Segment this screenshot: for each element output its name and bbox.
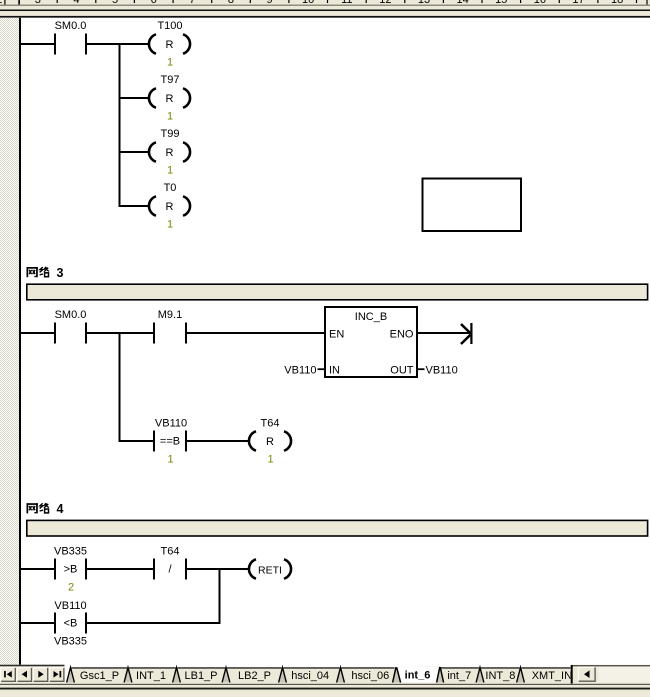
coil RETI [249,559,291,578]
svg-text:T0: T0 [164,182,177,194]
tab hsci_06 [341,667,397,682]
wire: rail to contact SM0.0 [21,43,54,45]
svg-text:INC_B: INC_B [355,311,387,323]
svg-text:M9.1: M9.1 [158,309,182,321]
svg-text:LB2_P: LB2_P [238,670,271,682]
nav button prev [17,667,32,682]
coil T64 (R) [249,418,291,466]
tab XMT_IN (clipped) [521,667,579,682]
wire: <B to junction [87,622,221,624]
svg-text:INT_1: INT_1 [136,670,166,682]
tab area right border [571,665,573,684]
operand VB110 into IN pin [284,365,325,377]
left power rail [19,18,21,665]
compare contact <B VB110,VB335 [54,600,87,648]
svg-text:hsci_06: hsci_06 [351,670,389,682]
network 3 title 网络 3 [27,267,49,277]
tab int_7 [440,667,480,682]
branch vertical wire (net3) [119,332,121,442]
svg-text:R: R [166,39,174,51]
svg-text:VB335: VB335 [54,636,87,648]
svg-text:OUT: OUT [390,364,414,376]
svg-text:INT_8: INT_8 [485,670,515,682]
svg-text:hsci_04: hsci_04 [291,670,329,682]
splitter beige band 1 [0,6,650,10]
tab LB1_P [177,667,227,682]
svg-text:1: 1 [167,57,173,69]
junction vertical wire (net4) [219,568,221,624]
svg-text:1: 1 [167,165,173,177]
svg-text:T99: T99 [161,128,180,140]
wire: contact SM0.0 to coil T100 [87,43,148,45]
ruler bottom gray edge [0,5,650,7]
wire: rail to compare contact >B (net4) [21,568,54,570]
svg-text:1: 1 [167,111,173,123]
network 4 title 网络 4 [27,503,49,513]
svg-text:int_7: int_7 [447,670,471,682]
svg-text:1: 1 [167,454,173,466]
operand VB110 from OUT pin [417,365,458,377]
svg-text:SM0.0: SM0.0 [55,20,87,32]
splitter black line 1 [0,10,650,12]
svg-text:3: 3 [57,266,64,280]
ruler numbers [0,0,623,6]
svg-text:==B: ==B [160,436,180,448]
wire: M9.1 to box INC_B [187,332,325,334]
selected tab int_6 [393,667,444,683]
network 4 comment bar [27,520,648,536]
wire: >B to contact T64 [87,568,153,570]
svg-text:Gsc1_P: Gsc1_P [80,670,119,682]
svg-text:R: R [266,436,274,448]
contact T64 (NC /) [153,546,187,580]
box INC_B U1 [325,307,417,377]
tab scroll left button [578,667,596,682]
coil T99 (R) [149,128,190,177]
scrollbar track [599,667,650,682]
wire: SM0.0 to contact M9.1 [87,332,153,334]
svg-text:T100: T100 [157,20,182,32]
coil T0 (R) [149,182,190,231]
coil T100 (R) [149,20,190,69]
svg-text:1: 1 [167,219,173,231]
tab strip white backdrop [65,667,571,682]
coil T97 (R) [149,74,190,123]
branch vertical wire [119,43,121,207]
tab Gsc1_P [71,667,129,682]
empty selection cell box [423,179,522,232]
tab separators [67,667,525,682]
open arrow (rung continuation) [461,323,473,344]
svg-text:RETI: RETI [258,564,282,576]
svg-text:<B: <B [64,618,78,630]
ruler strip background [0,0,650,5]
nav button next [33,667,48,682]
tab LB2_P [226,667,283,682]
contact M9.1 [153,309,187,344]
svg-text:4: 4 [57,502,64,516]
compare contact ==B VB110,1 [153,418,187,466]
svg-text:EN: EN [329,329,344,341]
splitter black line 2 [0,16,650,18]
svg-text:T64: T64 [161,546,180,558]
nav button first [1,667,16,682]
svg-text:T97: T97 [161,74,180,86]
svg-text:VB110: VB110 [155,418,187,430]
wire: rail to contact SM0.0 (net3) [21,332,54,334]
svg-text:VB110: VB110 [426,365,458,377]
bottom band base [0,665,650,684]
svg-text:R: R [166,201,174,213]
tab INT_1 [128,667,177,682]
svg-text:IN: IN [329,364,340,376]
svg-text:1: 1 [267,454,273,466]
svg-text:>B: >B [64,564,78,576]
wire stub to coil T97 [121,97,149,99]
ruler right edge line [646,0,647,5]
svg-text:VB335: VB335 [54,546,87,558]
svg-text:ENO: ENO [390,329,414,341]
wire stub to coil T0 [121,205,149,207]
wire: rail to compare contact <B (net4 row2) [21,622,54,624]
contact SM0.0 [54,20,87,55]
wire: T64 to coil RETI [187,568,249,570]
network 3 comment bar [27,284,648,300]
wire: ==B to coil T64 [187,440,249,442]
tab INT_8 [480,667,521,682]
svg-text:VB110: VB110 [284,365,316,377]
svg-text:VB110: VB110 [54,600,86,612]
splitter beige band 2 [0,11,650,16]
svg-text:SM0.0: SM0.0 [55,309,87,321]
svg-text:LB1_P: LB1_P [184,670,217,682]
compare contact >B VB335,2 [54,546,87,594]
ruler left corner box [4,0,5,5]
svg-text:R: R [166,93,174,105]
wire stub to compare contact [121,440,154,442]
wire: ENO output [417,332,471,334]
svg-text:R: R [166,147,174,159]
svg-text:XMT_IN: XMT_IN [532,670,572,682]
left gutter margin (dithered) [0,18,19,665]
wire stub to coil T99 [121,151,149,153]
nav button last [49,667,64,682]
svg-text:2: 2 [68,582,74,594]
svg-text:T64: T64 [261,418,280,430]
tab hsci_04 [283,667,341,682]
contact SM0.0 (net3) [54,309,87,344]
status edge lines [0,684,650,697]
svg-text:int_6: int_6 [405,670,431,682]
tab labels [80,670,572,682]
ruler tick marks [57,0,638,3]
